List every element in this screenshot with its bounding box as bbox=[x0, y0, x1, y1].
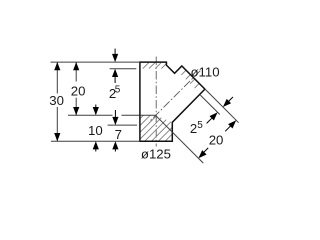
dimension 20: line bbox=[75, 62, 77, 115]
dimension 20 branch: lower arrow bbox=[198, 150, 206, 158]
dimension 20 branch: line segments bbox=[225, 126, 231, 132]
dimension 7: bottom arrow with tail bbox=[114, 149, 116, 152]
dimension 20: top arrow bbox=[73, 62, 79, 70]
dimension 7: top arrow with tail bbox=[114, 110, 116, 118]
hatch: lower solid block bbox=[114, 110, 203, 145]
dimension 30: bottom arrow bbox=[54, 133, 60, 141]
inner crotch line (horizontal, at branch axis level) bbox=[140, 114, 157, 116]
dimension 20 branch: upper arrow bbox=[228, 120, 236, 128]
dimension 2.5 top: lower arrow with tail bbox=[114, 77, 116, 84]
svg-text:ø125: ø125 bbox=[141, 147, 171, 162]
extension line: top edge level (left) bbox=[51, 61, 140, 63]
svg-text:2: 2 bbox=[190, 121, 197, 136]
main vertical centerline bbox=[155, 57, 157, 147]
extension line: step level (7) bbox=[108, 124, 138, 126]
extension line: top socket rim depth (2.5) bbox=[110, 68, 137, 70]
dimension 30: top arrow bbox=[54, 62, 60, 70]
svg-text:5: 5 bbox=[115, 84, 121, 95]
svg-text:ø110: ø110 bbox=[191, 65, 220, 80]
hatch ticks: branch socket rim bbox=[181, 70, 199, 88]
extension line E2: branch rim depth bbox=[200, 95, 219, 114]
svg-text:20: 20 bbox=[71, 83, 86, 98]
dimension 10: top arrow with tail bbox=[95, 105, 97, 109]
dimension 2.5 top: upper arrow with tail bbox=[114, 49, 116, 55]
svg-text:20: 20 bbox=[209, 133, 224, 148]
svg-text:5: 5 bbox=[197, 120, 203, 131]
extension line E3: branch axis point extended bbox=[155, 115, 203, 163]
fitting outline bbox=[140, 62, 205, 141]
extension line: bottom edge level (left) bbox=[51, 140, 140, 142]
branch 45-degree centerline bbox=[149, 71, 200, 122]
extension line: branch axis level bbox=[68, 114, 140, 116]
extension line E1: branch face extended bbox=[205, 89, 239, 123]
dimension 30: line bbox=[56, 62, 58, 141]
hatch ticks: top socket rim bbox=[143, 63, 167, 69]
dimension 2.5 branch: outer arrow with tail bbox=[228, 97, 233, 102]
dimension 2.5 branch: inner arrow with tail bbox=[207, 118, 212, 123]
svg-text:30: 30 bbox=[49, 93, 64, 108]
svg-text:10: 10 bbox=[88, 123, 103, 138]
svg-text:7: 7 bbox=[115, 127, 122, 142]
dimension 10: bottom arrow with tail bbox=[95, 149, 97, 152]
dimension 20: bottom arrow bbox=[73, 107, 79, 115]
